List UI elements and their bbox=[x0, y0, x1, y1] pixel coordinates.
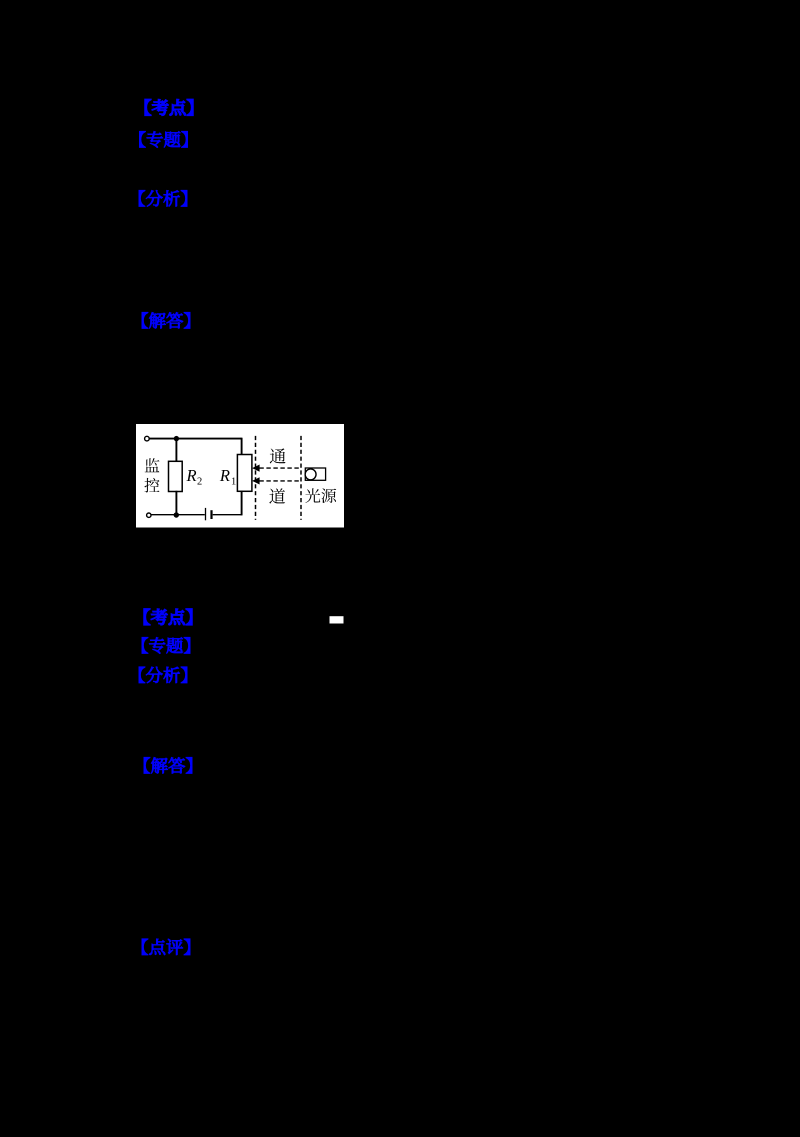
label jieda Q2 bbox=[144, 757, 192, 773]
light ray 1 dashed bbox=[259, 467, 301, 469]
node junction top bbox=[174, 436, 179, 441]
battery cell bbox=[206, 508, 212, 520]
wire R2 bottom lead bbox=[175, 491, 177, 515]
dashed boundary line right bbox=[300, 436, 302, 520]
label tong (channel upper) bbox=[270, 448, 286, 463]
light source icon bbox=[305, 468, 325, 480]
label dianping Q2 bbox=[142, 939, 190, 955]
dashed boundary line left bbox=[255, 436, 257, 520]
svg-text:1: 1 bbox=[231, 477, 236, 488]
label kaodian Q2 bbox=[144, 609, 192, 625]
light ray 2 arrowhead bbox=[252, 477, 260, 484]
svg-text:R: R bbox=[186, 466, 197, 485]
wire R2 top lead bbox=[175, 439, 177, 462]
resistor R2 bbox=[169, 461, 183, 491]
wire top horizontal bbox=[149, 438, 241, 440]
label guangyuan (light source) bbox=[305, 488, 336, 503]
light ray 2 dashed bbox=[259, 480, 301, 482]
label R2 bbox=[186, 466, 203, 487]
wire bottom left segment bbox=[151, 514, 205, 516]
label dao (channel lower) bbox=[269, 488, 285, 503]
svg-text:2: 2 bbox=[197, 476, 202, 487]
figure background panel bbox=[136, 424, 344, 528]
label zhuanti Q2 bbox=[142, 637, 190, 653]
label R1 bbox=[219, 466, 236, 488]
resistor R1 (photoresistor) bbox=[237, 455, 252, 492]
label jiankong (monitor) bbox=[144, 458, 159, 492]
equation placeholder white box bbox=[330, 616, 344, 623]
node junction bottom bbox=[174, 512, 179, 517]
wire R1 top lead bbox=[241, 438, 243, 455]
label fenxi Q2 bbox=[139, 667, 187, 683]
wire R1 bottom lead bbox=[241, 491, 243, 516]
label zhuanti Q1 bbox=[139, 131, 187, 147]
terminal bottom-left bbox=[147, 513, 151, 517]
wire bottom right segment bbox=[213, 514, 242, 516]
svg-text:R: R bbox=[219, 466, 230, 485]
label jieda Q1 bbox=[142, 312, 190, 328]
label kaodian Q1 bbox=[145, 99, 193, 115]
terminal top-left bbox=[145, 436, 150, 441]
label fenxi Q1 bbox=[139, 190, 187, 206]
light ray 1 arrowhead bbox=[252, 465, 260, 472]
